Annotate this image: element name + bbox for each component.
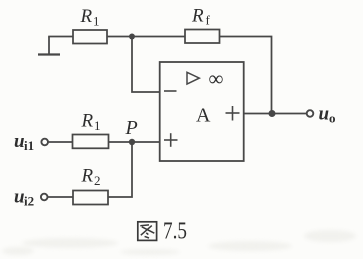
- label Rf: [191, 6, 211, 28]
- svg-text:u: u: [14, 131, 25, 152]
- op-amp plus input sign: [164, 133, 178, 147]
- svg-text:7.5: 7.5: [163, 218, 187, 244]
- svg-text:o: o: [329, 111, 336, 126]
- svg-text:i1: i1: [24, 138, 34, 153]
- op-amp minus input sign: [164, 90, 177, 92]
- label R1 (input branch): [81, 111, 101, 134]
- svg-text:u: u: [319, 104, 330, 125]
- svg-text:R: R: [191, 6, 204, 27]
- terminal ui2 open circle: [41, 194, 48, 201]
- label ui2: [14, 187, 34, 209]
- wire ui2 to R2: [47, 196, 73, 198]
- wire node N down to inverting input: [132, 37, 160, 93]
- output node junction dot: [269, 110, 276, 117]
- label R1 (top): [80, 6, 100, 29]
- resistor R2: [73, 191, 108, 205]
- wire R2 up to node P: [108, 142, 132, 197]
- svg-text:R: R: [80, 6, 93, 27]
- node N junction dot: [129, 34, 135, 40]
- svg-text:R: R: [81, 111, 94, 132]
- node P junction dot: [129, 139, 135, 145]
- wire op-amp output to terminal: [244, 113, 307, 115]
- terminal ui1 open circle: [41, 139, 48, 146]
- label ui1: [14, 131, 34, 153]
- wire R1 to node N and on to Rf: [107, 36, 185, 38]
- terminal uo open circle: [307, 110, 314, 117]
- wire ui1 to R1 input: [48, 141, 73, 143]
- svg-text:2: 2: [94, 173, 101, 188]
- resistor Rf: [185, 30, 220, 44]
- wire R1 input to node P and op-amp plus input: [109, 141, 161, 143]
- label uo: [319, 104, 336, 126]
- svg-text:1: 1: [93, 14, 100, 29]
- svg-text:R: R: [81, 166, 94, 187]
- svg-text:A: A: [196, 105, 211, 127]
- label R2: [81, 166, 101, 189]
- resistor R1 (input branch): [73, 135, 109, 149]
- svg-text:i2: i2: [24, 194, 34, 209]
- wire Rf to output node: [220, 37, 272, 114]
- op-amp plus output sign: [226, 106, 240, 121]
- figure caption: hand-drawn CJK 图: [138, 222, 157, 241]
- svg-text:P: P: [125, 117, 138, 139]
- svg-text:∞: ∞: [209, 66, 224, 90]
- resistor R1 (top feedback branch): [73, 30, 107, 44]
- wire ground to R1 top: [48, 36, 73, 38]
- op-amp ideal triangle symbol: [187, 72, 199, 84]
- svg-text:f: f: [206, 13, 211, 28]
- op-amp U1 rectangle: [160, 62, 244, 161]
- svg-text:u: u: [14, 187, 25, 208]
- svg-text:1: 1: [94, 118, 101, 133]
- ground: [38, 37, 60, 55]
